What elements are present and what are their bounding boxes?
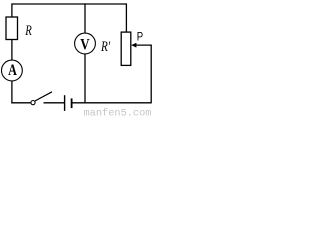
wire bottom left segment (11, 102, 31, 104)
svg-text:R′: R′ (100, 39, 110, 55)
wire voltmeter branch top (84, 3, 86, 33)
wiper arrowhead (131, 43, 136, 48)
switch blade (35, 92, 52, 101)
wire R to ammeter (11, 40, 13, 61)
wire right drop (125, 3, 127, 32)
wiper arrow shaft (135, 44, 152, 46)
wire right vertical (150, 45, 152, 103)
svg-text:P: P (137, 31, 143, 44)
svg-text:V: V (80, 36, 90, 53)
wire voltmeter to bottom (84, 54, 86, 103)
wire ammeter to bottom (11, 81, 13, 103)
wire top horizontal (12, 3, 127, 5)
resistor R (6, 17, 18, 40)
background (0, 0, 153, 118)
svg-text:A: A (8, 61, 17, 79)
wire switch to battery (44, 102, 65, 104)
wire battery to right (72, 102, 151, 104)
wire left vertical top (11, 3, 13, 17)
switch pivot (31, 101, 35, 105)
battery short plate (71, 98, 73, 108)
voltmeter V (75, 33, 96, 54)
battery long plate (64, 95, 66, 111)
rheostat R' body (121, 32, 131, 65)
ammeter A (2, 60, 23, 81)
svg-text:R: R (24, 22, 32, 38)
svg-text:manfen5.com: manfen5.com (84, 107, 152, 118)
